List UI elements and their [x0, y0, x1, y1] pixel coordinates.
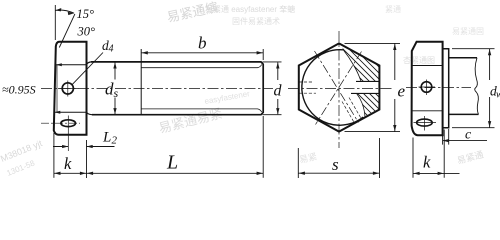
svg-text:易紧通 easyfastener 羍螗: 易紧通 easyfastener 羍螗	[205, 4, 295, 14]
svg-text:L: L	[166, 152, 178, 174]
svg-text:d: d	[274, 83, 283, 100]
svg-text:s: s	[332, 155, 339, 174]
svg-text:s: s	[114, 86, 119, 100]
svg-text:k: k	[423, 153, 431, 172]
svg-text:紧通: 紧通	[385, 4, 401, 14]
svg-text:固件易紧通术: 固件易紧通术	[232, 16, 280, 26]
svg-text:2: 2	[112, 135, 118, 147]
svg-text:易紧通固: 易紧通固	[452, 26, 484, 36]
svg-text:15°: 15°	[77, 7, 95, 21]
svg-text:e: e	[398, 82, 406, 101]
svg-text:30°: 30°	[77, 25, 96, 39]
svg-text:≈0.95S: ≈0.95S	[2, 83, 36, 97]
svg-text:k: k	[64, 154, 72, 173]
svg-text:c: c	[465, 128, 472, 143]
svg-text:4: 4	[109, 44, 114, 55]
svg-text:L: L	[102, 130, 111, 146]
svg-text:w: w	[496, 90, 500, 101]
svg-text:b: b	[198, 34, 207, 53]
svg-text:杏紧通图: 杏紧通图	[403, 55, 435, 65]
